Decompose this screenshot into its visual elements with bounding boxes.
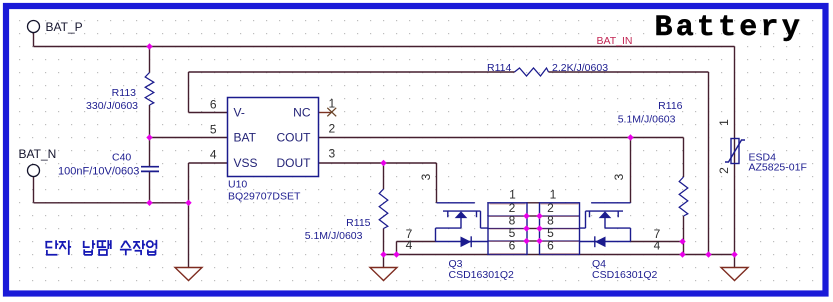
wire COUT pin 2 net y=137 — [319, 137, 684, 139]
svg-text:BAT: BAT — [234, 131, 257, 145]
wire bottom pin 4 ground net y=254 — [384, 254, 735, 256]
junction box left pin 6 — [523, 238, 529, 244]
wire R115 leads x=383 — [383, 163, 385, 255]
wire BAT_N net — [34, 177, 189, 203]
wire box link row 6 — [527, 240, 540, 242]
svg-text:CSD16301Q2: CSD16301Q2 — [592, 269, 658, 281]
svg-text:4: 4 — [210, 148, 217, 162]
svg-text:6: 6 — [547, 239, 554, 253]
op-amp U1 IC U10 BQ29707DSET body — [228, 98, 319, 177]
junction R114 net / bottom net — [705, 251, 711, 257]
wire C40 leads — [149, 138, 151, 203]
junction DOUT net / R115 — [380, 160, 386, 166]
korean note text 단자 납땜 수작업 — [46, 240, 156, 256]
ground left — [175, 268, 202, 281]
terminal BAT_N — [28, 165, 40, 177]
svg-text:4: 4 — [654, 239, 661, 253]
wire Q4 gate pin 7 net — [630, 241, 683, 243]
svg-text:2: 2 — [717, 167, 731, 174]
svg-text:BAT_IN: BAT_IN — [597, 35, 633, 47]
svg-text:Battery: Battery — [655, 11, 803, 45]
junction COUT net / Q4 drain — [627, 134, 633, 140]
junction box left pin 5 — [523, 225, 529, 231]
junction box right pin 6 — [536, 238, 542, 244]
junction box right pin 8 — [536, 213, 542, 219]
resistor R116 — [679, 177, 688, 216]
terminal BAT_P — [28, 21, 40, 33]
package pin box right (Q4 section pins 1/2/8/5/6) — [540, 203, 580, 255]
svg-text:3: 3 — [329, 147, 336, 161]
junction BAT pin / R113 / C40 — [146, 134, 152, 140]
wire NC pin 1 stub — [319, 112, 332, 114]
wire Q4 drain vertical x=630 — [630, 138, 632, 203]
svg-text:U10: U10 — [228, 179, 247, 191]
svg-text:1: 1 — [329, 97, 336, 111]
svg-text:1: 1 — [550, 188, 557, 202]
svg-text:R116: R116 — [658, 100, 682, 112]
wire R113 leads — [149, 47, 151, 138]
wire VSS-to-ground vertical x=188 — [188, 163, 190, 268]
svg-text:5.1M/J/0603: 5.1M/J/0603 — [305, 230, 363, 242]
package pin box left (Q3 section pins 1/2/8/5/6) — [488, 203, 527, 255]
svg-text:BAT_P: BAT_P — [46, 20, 83, 34]
junction BAT_N net / ground — [185, 200, 191, 206]
svg-text:3: 3 — [419, 173, 433, 180]
junction box right pin 5 — [536, 225, 542, 231]
wire DOUT pin 3 net y=162 — [319, 162, 437, 164]
wire BAT_P terminal stub — [33, 33, 35, 47]
svg-text:3: 3 — [612, 173, 626, 180]
svg-text:5.1M/J/0603: 5.1M/J/0603 — [618, 113, 676, 125]
junction top wire / R113 — [146, 43, 152, 49]
junction C40 / BAT_N net — [146, 200, 152, 206]
svg-text:6: 6 — [210, 98, 217, 112]
wire R116 leads x=683 — [683, 138, 685, 255]
junction R115 / bottom net — [380, 251, 386, 257]
transistor Q3 CSD16301Q2 — [436, 203, 490, 242]
svg-text:BQ29707DSET: BQ29707DSET — [228, 191, 301, 203]
resistor R114 — [515, 68, 549, 76]
wire R114 net y=71 — [189, 71, 709, 73]
resistor R113 — [145, 73, 154, 106]
capacitor C40 — [141, 167, 159, 172]
svg-text:330/J/0603: 330/J/0603 — [86, 100, 138, 112]
svg-text:4: 4 — [406, 238, 413, 252]
wire VSS pin 4 net — [189, 162, 228, 164]
wire box link row 8 — [527, 215, 540, 217]
svg-text:100nF/10V/0603: 100nF/10V/0603 — [58, 166, 139, 178]
svg-text:COUT: COUT — [277, 131, 312, 145]
wire V- pin 6 net — [189, 72, 228, 113]
junction Q3 pin 7 / bottom net — [393, 251, 399, 257]
wire top BAT_P/BAT_IN net y=46 — [34, 46, 735, 48]
ground middle (R115) — [370, 268, 397, 281]
svg-text:5: 5 — [210, 123, 217, 137]
svg-text:BAT_N: BAT_N — [19, 147, 57, 161]
wire BAT pin 5 net — [150, 137, 228, 139]
junction ESD4 net / bottom net — [731, 251, 737, 257]
svg-text:2.2K/J/0603: 2.2K/J/0603 — [552, 62, 608, 74]
svg-text:CSD16301Q2: CSD16301Q2 — [449, 269, 515, 281]
ground right — [721, 268, 748, 281]
ESD suppressor ESD4 AZ5825-01F — [731, 139, 739, 164]
wire box link row 5 — [527, 228, 540, 230]
svg-text:1: 1 — [509, 188, 516, 202]
no-connect X on pin 1 — [327, 108, 336, 117]
svg-text:R114: R114 — [487, 62, 511, 74]
svg-text:2: 2 — [329, 122, 336, 136]
svg-text:R115: R115 — [346, 217, 370, 229]
wire ESD4 net vertical x=734 — [734, 47, 736, 255]
svg-text:AZ5825-01F: AZ5825-01F — [749, 162, 807, 174]
transistor Q4 CSD16301Q2 — [579, 203, 631, 242]
svg-text:DOUT: DOUT — [277, 156, 312, 170]
wire Q3 gate pin 7 net — [397, 242, 436, 255]
svg-text:V-: V- — [234, 106, 245, 120]
junction box left pin 8 — [523, 213, 529, 219]
svg-text:6: 6 — [509, 239, 516, 253]
wire R115 ground stem — [383, 255, 385, 268]
resistor R115 — [379, 189, 388, 229]
svg-text:1: 1 — [717, 119, 731, 126]
wire R114 right vertical x=708 — [708, 72, 710, 255]
svg-text:C40: C40 — [112, 152, 131, 164]
junction Q4 pin 7 / R116 — [679, 238, 685, 244]
wire Q3 drain vertical x=436 — [436, 163, 438, 203]
svg-text:NC: NC — [293, 106, 311, 120]
junction R116 / bottom net — [679, 251, 685, 257]
wire right ground stem — [734, 255, 736, 268]
svg-text:VSS: VSS — [234, 156, 258, 170]
wire box link row 2 — [527, 202, 540, 204]
svg-text:R113: R113 — [112, 87, 136, 99]
